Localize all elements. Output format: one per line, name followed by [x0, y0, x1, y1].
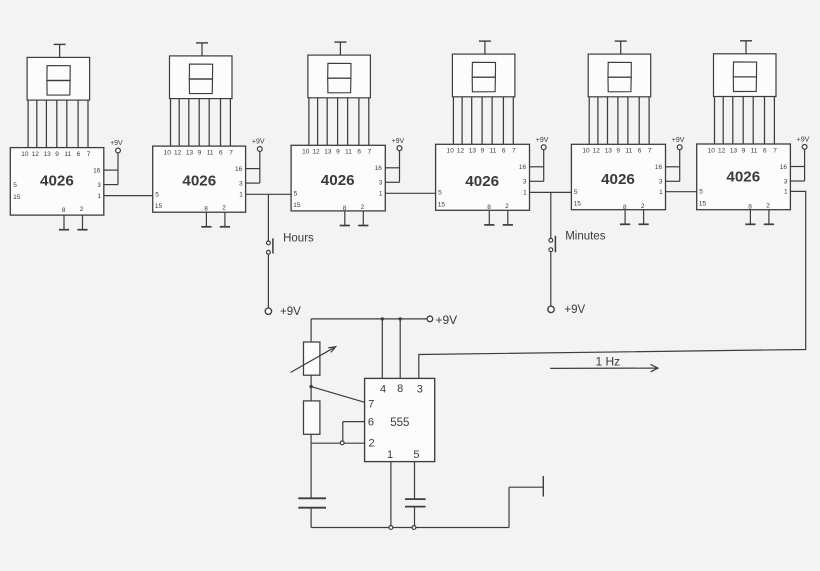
- svg-text:13: 13: [730, 147, 738, 154]
- display DS1 common terminal: [54, 44, 66, 57]
- svg-text:8: 8: [343, 205, 347, 212]
- counter U4 4026: [436, 144, 530, 211]
- svg-text:11: 11: [207, 149, 214, 156]
- counter U6 4026: [697, 144, 791, 211]
- wire U4 pin 3 to +9V: [530, 180, 544, 182]
- wire U1 pin 3 to +9V: [104, 184, 118, 186]
- wire U6 pin 5 carry to U5 pin 1 clock: [666, 191, 697, 193]
- node pin1/ground rail: [389, 526, 393, 530]
- 7-segment display DS3: [308, 55, 371, 98]
- capacitor C2: [405, 499, 426, 507]
- svg-text:3: 3: [523, 179, 527, 186]
- display DS6 common terminal: [740, 41, 752, 54]
- svg-text:2: 2: [80, 206, 84, 213]
- +9V supply terminal of U2: [252, 139, 265, 183]
- svg-text:16: 16: [519, 164, 527, 171]
- svg-text:10: 10: [582, 148, 590, 155]
- svg-text:+9V: +9V: [797, 137, 810, 144]
- 7-segment display DS1: [27, 57, 90, 100]
- svg-text:9: 9: [742, 147, 746, 154]
- svg-text:8: 8: [62, 207, 66, 214]
- svg-text:6: 6: [77, 151, 81, 158]
- resistor R1: [304, 401, 320, 434]
- wire S1 to +9V terminal: [267, 254, 269, 308]
- svg-text:6: 6: [357, 149, 361, 156]
- svg-text:2: 2: [766, 203, 770, 210]
- svg-text:4026: 4026: [465, 173, 499, 190]
- wire U2 pin 5 carry to U1 pin 1 clock: [104, 195, 153, 197]
- svg-text:Minutes: Minutes: [565, 231, 606, 243]
- wire U4 pin 5 carry to U3 pin 1 clock: [385, 192, 435, 194]
- svg-text:7: 7: [648, 148, 652, 155]
- svg-text:9: 9: [481, 148, 485, 155]
- svg-text:2: 2: [505, 203, 509, 210]
- ground U4 pin 2: [503, 210, 513, 225]
- 7-segment display DS2: [170, 56, 233, 99]
- svg-text:12: 12: [312, 149, 320, 156]
- svg-text:13: 13: [324, 149, 332, 156]
- wire U3 pin 3 to +9V: [385, 181, 399, 183]
- svg-text:7: 7: [368, 149, 372, 156]
- counter U2 4026: [153, 146, 246, 213]
- svg-text:9: 9: [198, 149, 202, 156]
- wire RV1 to R1: [310, 375, 312, 401]
- wire U3 pin 16 to +9V: [385, 167, 399, 169]
- svg-text:16: 16: [93, 167, 101, 174]
- svg-text:4026: 4026: [182, 173, 216, 190]
- wires DS2 to U2 pins 10 12 13 9 11 6 7: [171, 99, 231, 147]
- 7-segment display DS6: [714, 54, 777, 97]
- timer U7 555: [365, 378, 435, 461]
- ground U6 pin 2: [764, 210, 774, 225]
- wire U7 pin 1 to ground rail: [390, 462, 392, 528]
- wire U3 pin 5 carry to U2 pin 1 clock: [246, 193, 292, 195]
- svg-text:13: 13: [43, 151, 51, 158]
- display DS3 common terminal: [334, 42, 346, 55]
- svg-text:12: 12: [457, 148, 465, 155]
- +9V supply terminal of U5: [672, 137, 685, 181]
- svg-text:3: 3: [379, 180, 383, 187]
- +9V supply terminal of U6: [797, 137, 810, 181]
- svg-text:13: 13: [186, 149, 194, 156]
- svg-text:+9V: +9V: [392, 138, 405, 145]
- wire U7 pin 3 output to U6 pin 1: [419, 191, 806, 378]
- junction: pin 4 to rail: [381, 317, 384, 320]
- ground U3 pin 2: [358, 211, 368, 226]
- svg-text:Hours: Hours: [283, 233, 314, 245]
- svg-text:15: 15: [13, 194, 21, 201]
- wire U6 pin 16 to +9V: [790, 166, 804, 168]
- svg-text:6: 6: [502, 148, 506, 155]
- ground U5 pin 8: [620, 210, 630, 225]
- svg-text:6: 6: [763, 147, 767, 154]
- svg-text:2: 2: [369, 438, 375, 450]
- svg-text:555: 555: [390, 417, 409, 429]
- wires DS5 to U5 pins 10 12 13 9 11 6 7: [589, 97, 649, 145]
- svg-text:10: 10: [302, 149, 310, 156]
- svg-text:12: 12: [593, 148, 601, 155]
- svg-text:11: 11: [490, 148, 497, 155]
- svg-text:9: 9: [616, 148, 620, 155]
- terminal bar (reset): [542, 476, 544, 497]
- +9V supply rail of 555: [311, 318, 430, 320]
- wire U7 pin 8 to rail: [399, 319, 401, 379]
- svg-text:13: 13: [469, 148, 477, 155]
- svg-text:8: 8: [397, 383, 403, 395]
- junction RV1/R1/pin7: [309, 385, 312, 388]
- +9V supply terminal of U4: [536, 137, 549, 181]
- svg-text:7: 7: [368, 399, 374, 411]
- svg-text:12: 12: [174, 149, 182, 156]
- svg-text:2: 2: [361, 204, 365, 211]
- wire U5 pin 3 to +9V: [666, 180, 680, 182]
- +9V supply terminal of U1: [110, 140, 123, 184]
- wire junction down to C1: [310, 443, 312, 498]
- svg-text:10: 10: [447, 148, 455, 155]
- ground U1 pin 2: [77, 215, 87, 230]
- wire U2 pin 3 to +9V: [246, 182, 260, 184]
- svg-text:3: 3: [784, 178, 788, 185]
- wire rail to potentiometer RV1: [310, 319, 312, 342]
- svg-text:5: 5: [438, 190, 442, 197]
- display DS4 common terminal: [479, 41, 491, 54]
- +9V terminal (555 supply): [427, 313, 457, 327]
- svg-text:4026: 4026: [726, 168, 760, 185]
- wire U5 pin 5 carry to U4 pin 1 clock: [530, 191, 572, 193]
- svg-text:5: 5: [294, 191, 298, 198]
- svg-text:12: 12: [32, 151, 40, 158]
- svg-text:16: 16: [235, 166, 243, 173]
- ground U3 pin 8: [340, 211, 350, 226]
- svg-text:15: 15: [438, 201, 446, 208]
- svg-text:+9V: +9V: [252, 139, 265, 146]
- svg-text:5: 5: [699, 189, 703, 196]
- svg-text:4: 4: [380, 384, 386, 396]
- svg-text:6: 6: [368, 417, 374, 429]
- svg-text:12: 12: [718, 147, 726, 154]
- svg-text:1: 1: [387, 449, 393, 461]
- wires DS4 to U4 pins 10 12 13 9 11 6 7: [453, 97, 513, 145]
- svg-text:11: 11: [625, 148, 632, 155]
- capacitor C1: [298, 498, 326, 507]
- svg-text:3: 3: [97, 182, 101, 189]
- wire U4 pin 16 to +9V: [530, 166, 544, 168]
- wire ground rail to reset terminal: [509, 487, 543, 527]
- wire U7 pin 5 to C2: [414, 462, 416, 500]
- svg-text:9: 9: [55, 151, 59, 158]
- svg-text:16: 16: [375, 165, 383, 172]
- +9V supply terminal of U3: [392, 138, 405, 182]
- svg-text:7: 7: [773, 147, 777, 154]
- svg-text:3: 3: [417, 384, 423, 396]
- svg-text:8: 8: [487, 204, 491, 211]
- svg-text:6: 6: [219, 149, 223, 156]
- node: minutes clock junction: [550, 192, 552, 238]
- svg-text:15: 15: [293, 202, 301, 209]
- junction: pin 8 to rail: [399, 317, 402, 320]
- wires DS3 to U3 pins 10 12 13 9 11 6 7: [309, 98, 369, 146]
- svg-text:+9V: +9V: [280, 306, 301, 318]
- node: pins 2-6 junction: [340, 441, 344, 445]
- svg-text:+9V: +9V: [672, 137, 685, 144]
- svg-text:10: 10: [164, 149, 172, 156]
- +9V terminal (minutes set): [548, 304, 586, 316]
- potentiometer RV1: [291, 342, 336, 375]
- svg-text:7: 7: [512, 148, 516, 155]
- svg-text:15: 15: [155, 203, 163, 210]
- ground U5 pin 2: [639, 210, 649, 225]
- wire U1 pin 16 to +9V: [104, 169, 118, 171]
- wire U7 pin 4 to rail: [381, 319, 383, 379]
- svg-text:11: 11: [751, 147, 758, 154]
- svg-text:10: 10: [21, 151, 29, 158]
- svg-text:1: 1: [659, 189, 663, 196]
- svg-text:3: 3: [659, 179, 663, 186]
- +9V terminal (hours set): [265, 306, 301, 318]
- display DS5 common terminal: [615, 41, 627, 54]
- wire C2 to ground rail: [414, 507, 416, 528]
- wire junction to U7 pin 6: [343, 422, 365, 441]
- svg-text:8: 8: [748, 204, 752, 211]
- wire U6 pin 3 to +9V: [790, 180, 804, 182]
- svg-text:5: 5: [13, 182, 17, 189]
- display DS2 common terminal: [196, 43, 208, 56]
- svg-text:7: 7: [87, 151, 91, 158]
- svg-text:4026: 4026: [40, 173, 74, 190]
- svg-text:9: 9: [336, 149, 340, 156]
- wire junction to U7 pin 7: [311, 387, 365, 403]
- svg-text:1: 1: [379, 191, 383, 198]
- svg-text:15: 15: [574, 201, 582, 208]
- svg-text:5: 5: [574, 189, 578, 196]
- svg-text:1: 1: [784, 189, 788, 196]
- arrow 1 Hz direction: [550, 364, 658, 371]
- svg-text:+9V: +9V: [564, 304, 585, 316]
- svg-text:6: 6: [638, 148, 642, 155]
- wire R1 to pin 2 / C1: [311, 434, 365, 443]
- svg-text:4026: 4026: [601, 171, 635, 188]
- svg-text:10: 10: [708, 147, 716, 154]
- wire C1 to ground rail: [310, 508, 312, 528]
- svg-text:+9V: +9V: [110, 140, 123, 147]
- wires DS6 to U6 pins 10 12 13 9 11 6 7: [715, 97, 775, 145]
- ground rail: [311, 527, 509, 529]
- wire S2 to +9V terminal: [550, 252, 552, 307]
- svg-text:7: 7: [229, 149, 233, 156]
- ground U4 pin 8: [484, 210, 494, 225]
- svg-text:1: 1: [523, 190, 527, 197]
- svg-text:+9V: +9V: [436, 313, 458, 327]
- counter U5 4026: [571, 144, 665, 211]
- svg-text:13: 13: [605, 148, 613, 155]
- svg-text:8: 8: [204, 206, 208, 213]
- svg-text:1: 1: [239, 192, 243, 199]
- 7-segment display DS4: [452, 54, 515, 97]
- pushbutton S2 (set Minutes): [549, 236, 556, 253]
- wire U5 pin 16 to +9V: [666, 166, 680, 168]
- svg-text:3: 3: [239, 180, 243, 187]
- svg-text:2: 2: [222, 205, 226, 212]
- svg-text:15: 15: [699, 200, 707, 207]
- counter U3 4026: [291, 145, 385, 212]
- ground U2 pin 2: [220, 212, 230, 227]
- ground U1 pin 8: [59, 215, 69, 230]
- svg-text:16: 16: [780, 164, 788, 171]
- 7-segment display DS5: [588, 54, 651, 97]
- pushbutton S1 (set Hours): [267, 238, 273, 254]
- ground U6 pin 8: [745, 210, 755, 225]
- wires DS1 to U1 pins 10 12 13 9 11 6 7: [28, 100, 88, 148]
- svg-text:2: 2: [641, 203, 645, 210]
- node: hours clock junction: [267, 194, 269, 241]
- svg-text:1 Hz: 1 Hz: [596, 354, 621, 368]
- svg-text:1: 1: [97, 193, 101, 200]
- svg-text:+9V: +9V: [536, 137, 549, 144]
- svg-text:16: 16: [655, 164, 663, 171]
- node C2/ground rail: [412, 526, 416, 530]
- counter U1 4026: [10, 148, 104, 216]
- svg-text:11: 11: [345, 149, 352, 156]
- svg-text:5: 5: [413, 449, 419, 461]
- svg-text:4026: 4026: [321, 172, 355, 189]
- wire U2 pin 16 to +9V: [246, 168, 260, 170]
- svg-text:11: 11: [64, 151, 71, 158]
- svg-text:5: 5: [155, 192, 159, 199]
- ground U2 pin 8: [201, 212, 211, 227]
